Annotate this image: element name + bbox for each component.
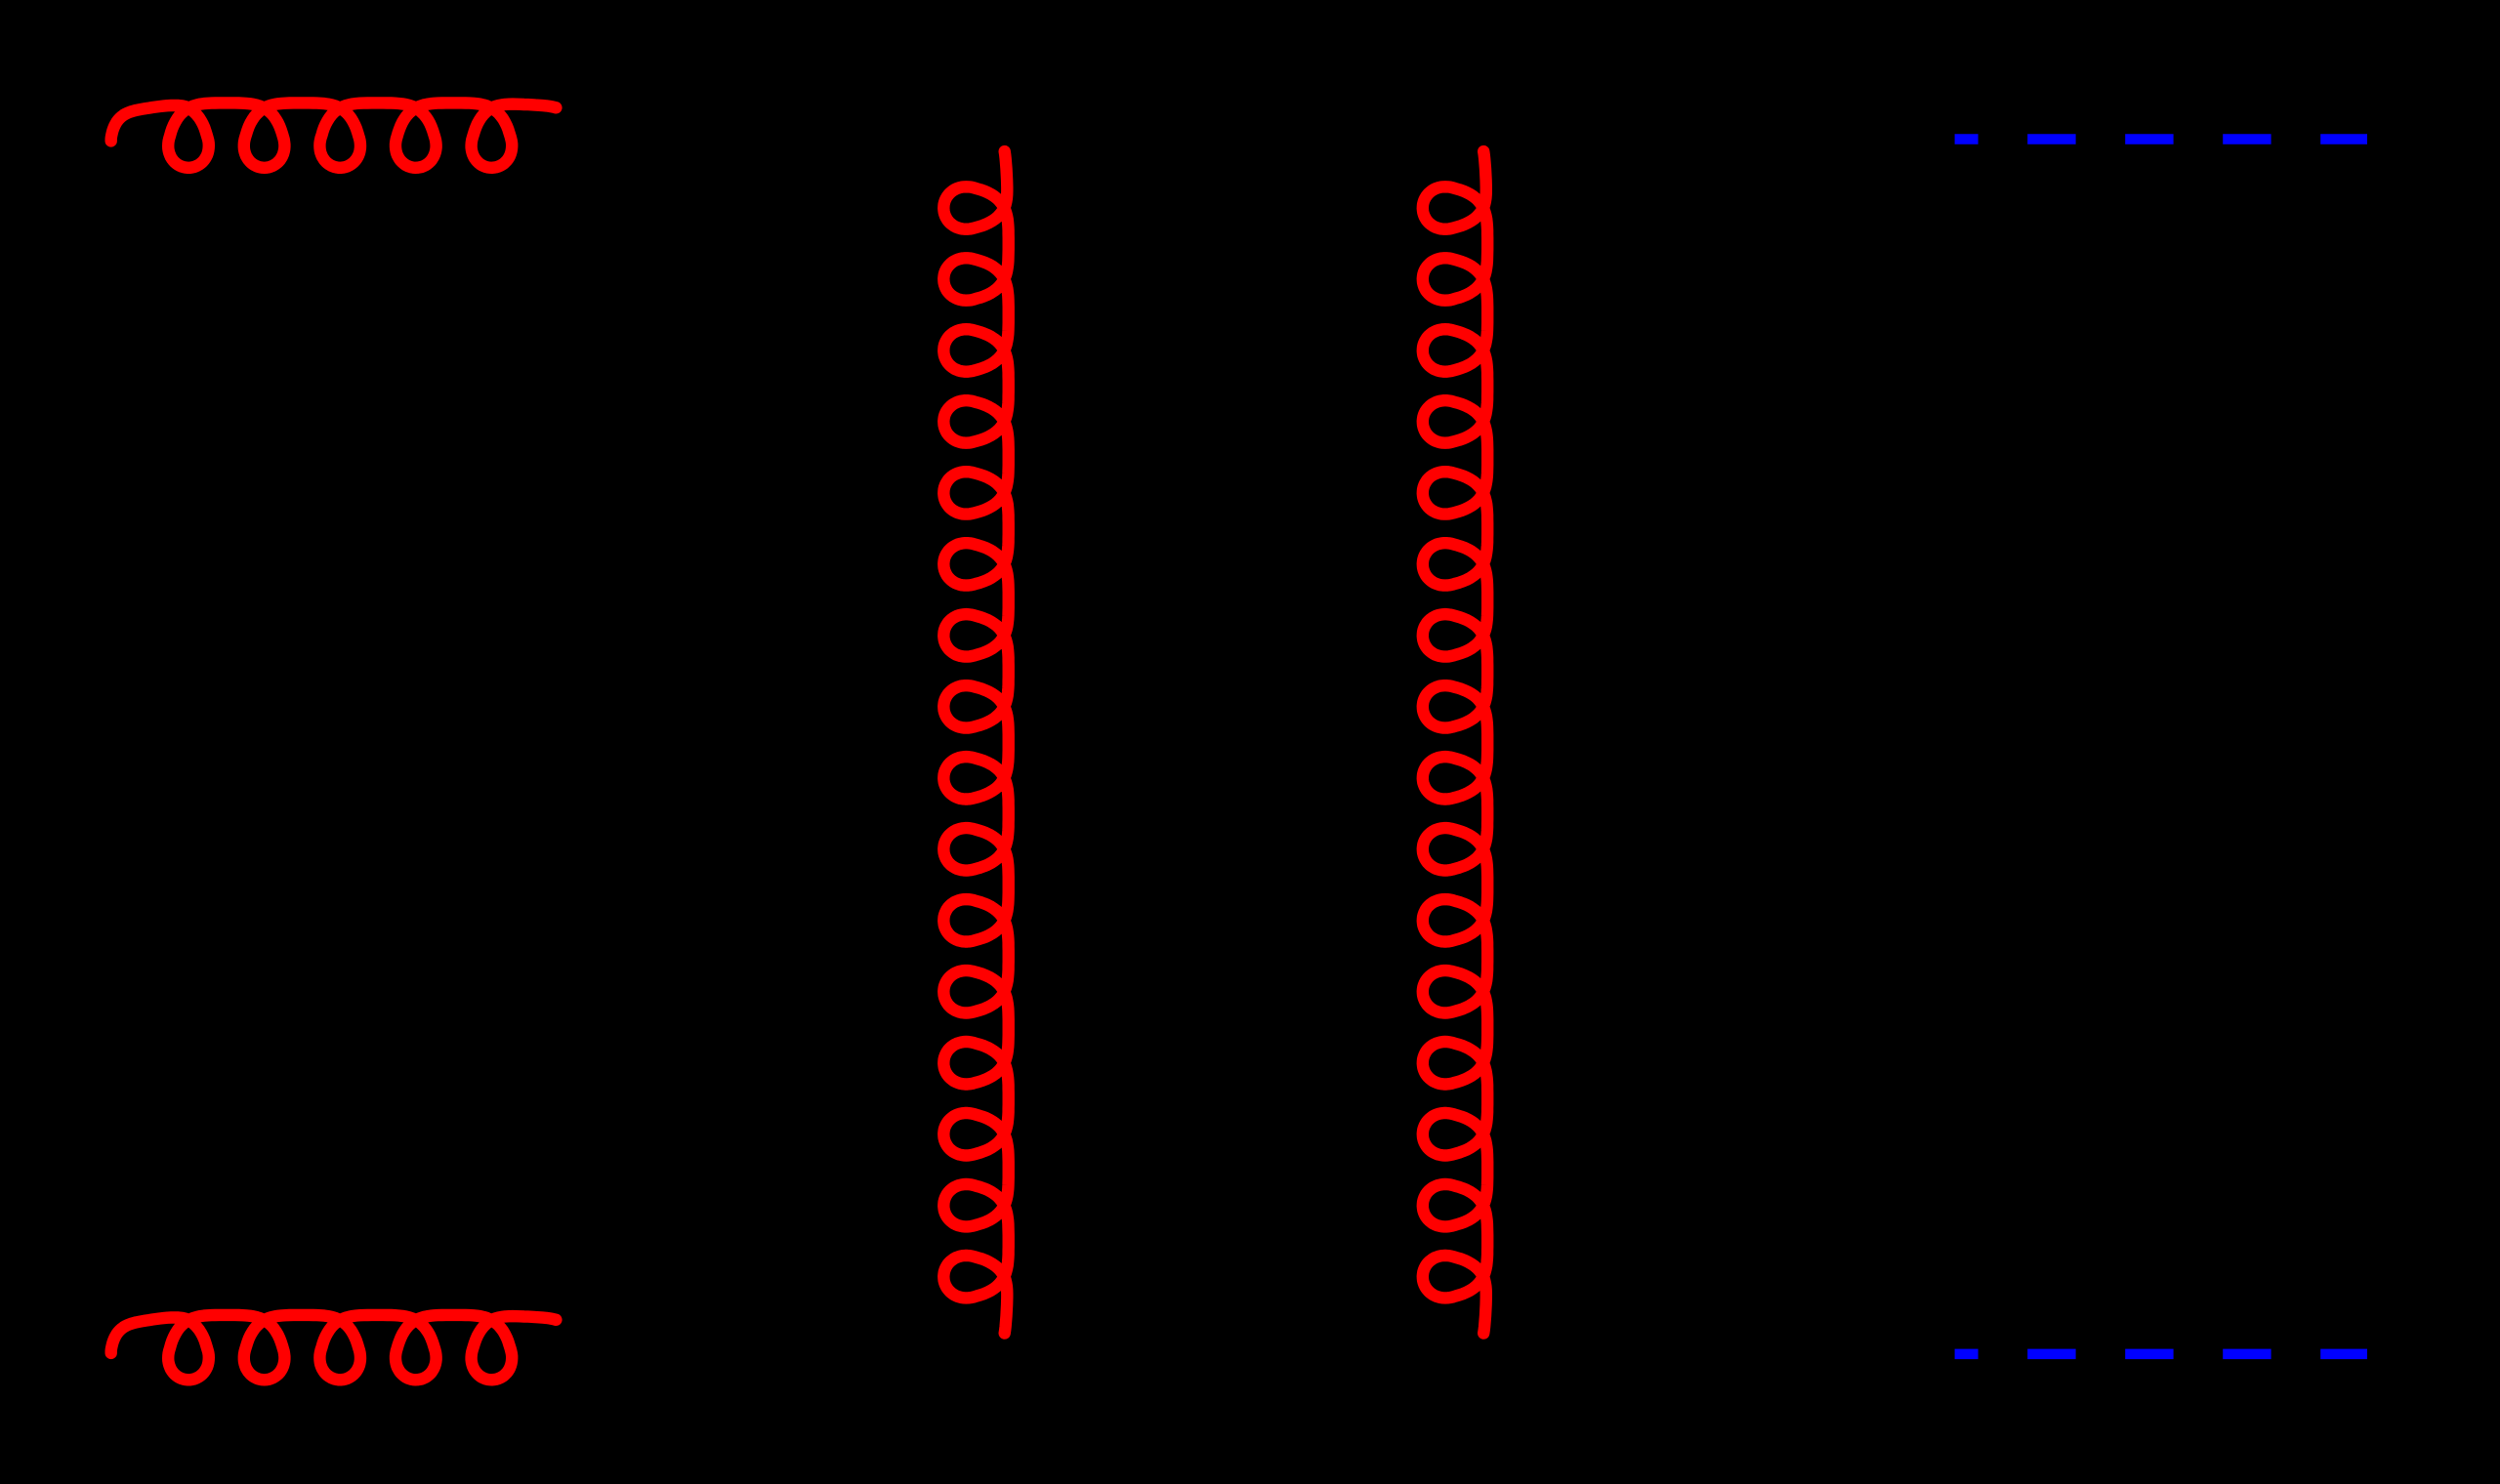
gluon g3 (exchanged, left vertical) (943, 151, 1008, 1334)
gluon g1 (incoming, top-left) (111, 103, 557, 167)
gluon g4 (exchanged, right vertical) (1423, 151, 1487, 1334)
scalar h1 (outgoing, top-right dashed) (1955, 134, 2367, 144)
scalar h2 (outgoing, bottom-right dashed) (1955, 1349, 2367, 1360)
gluon g2 (incoming, bottom-left) (111, 1315, 557, 1380)
